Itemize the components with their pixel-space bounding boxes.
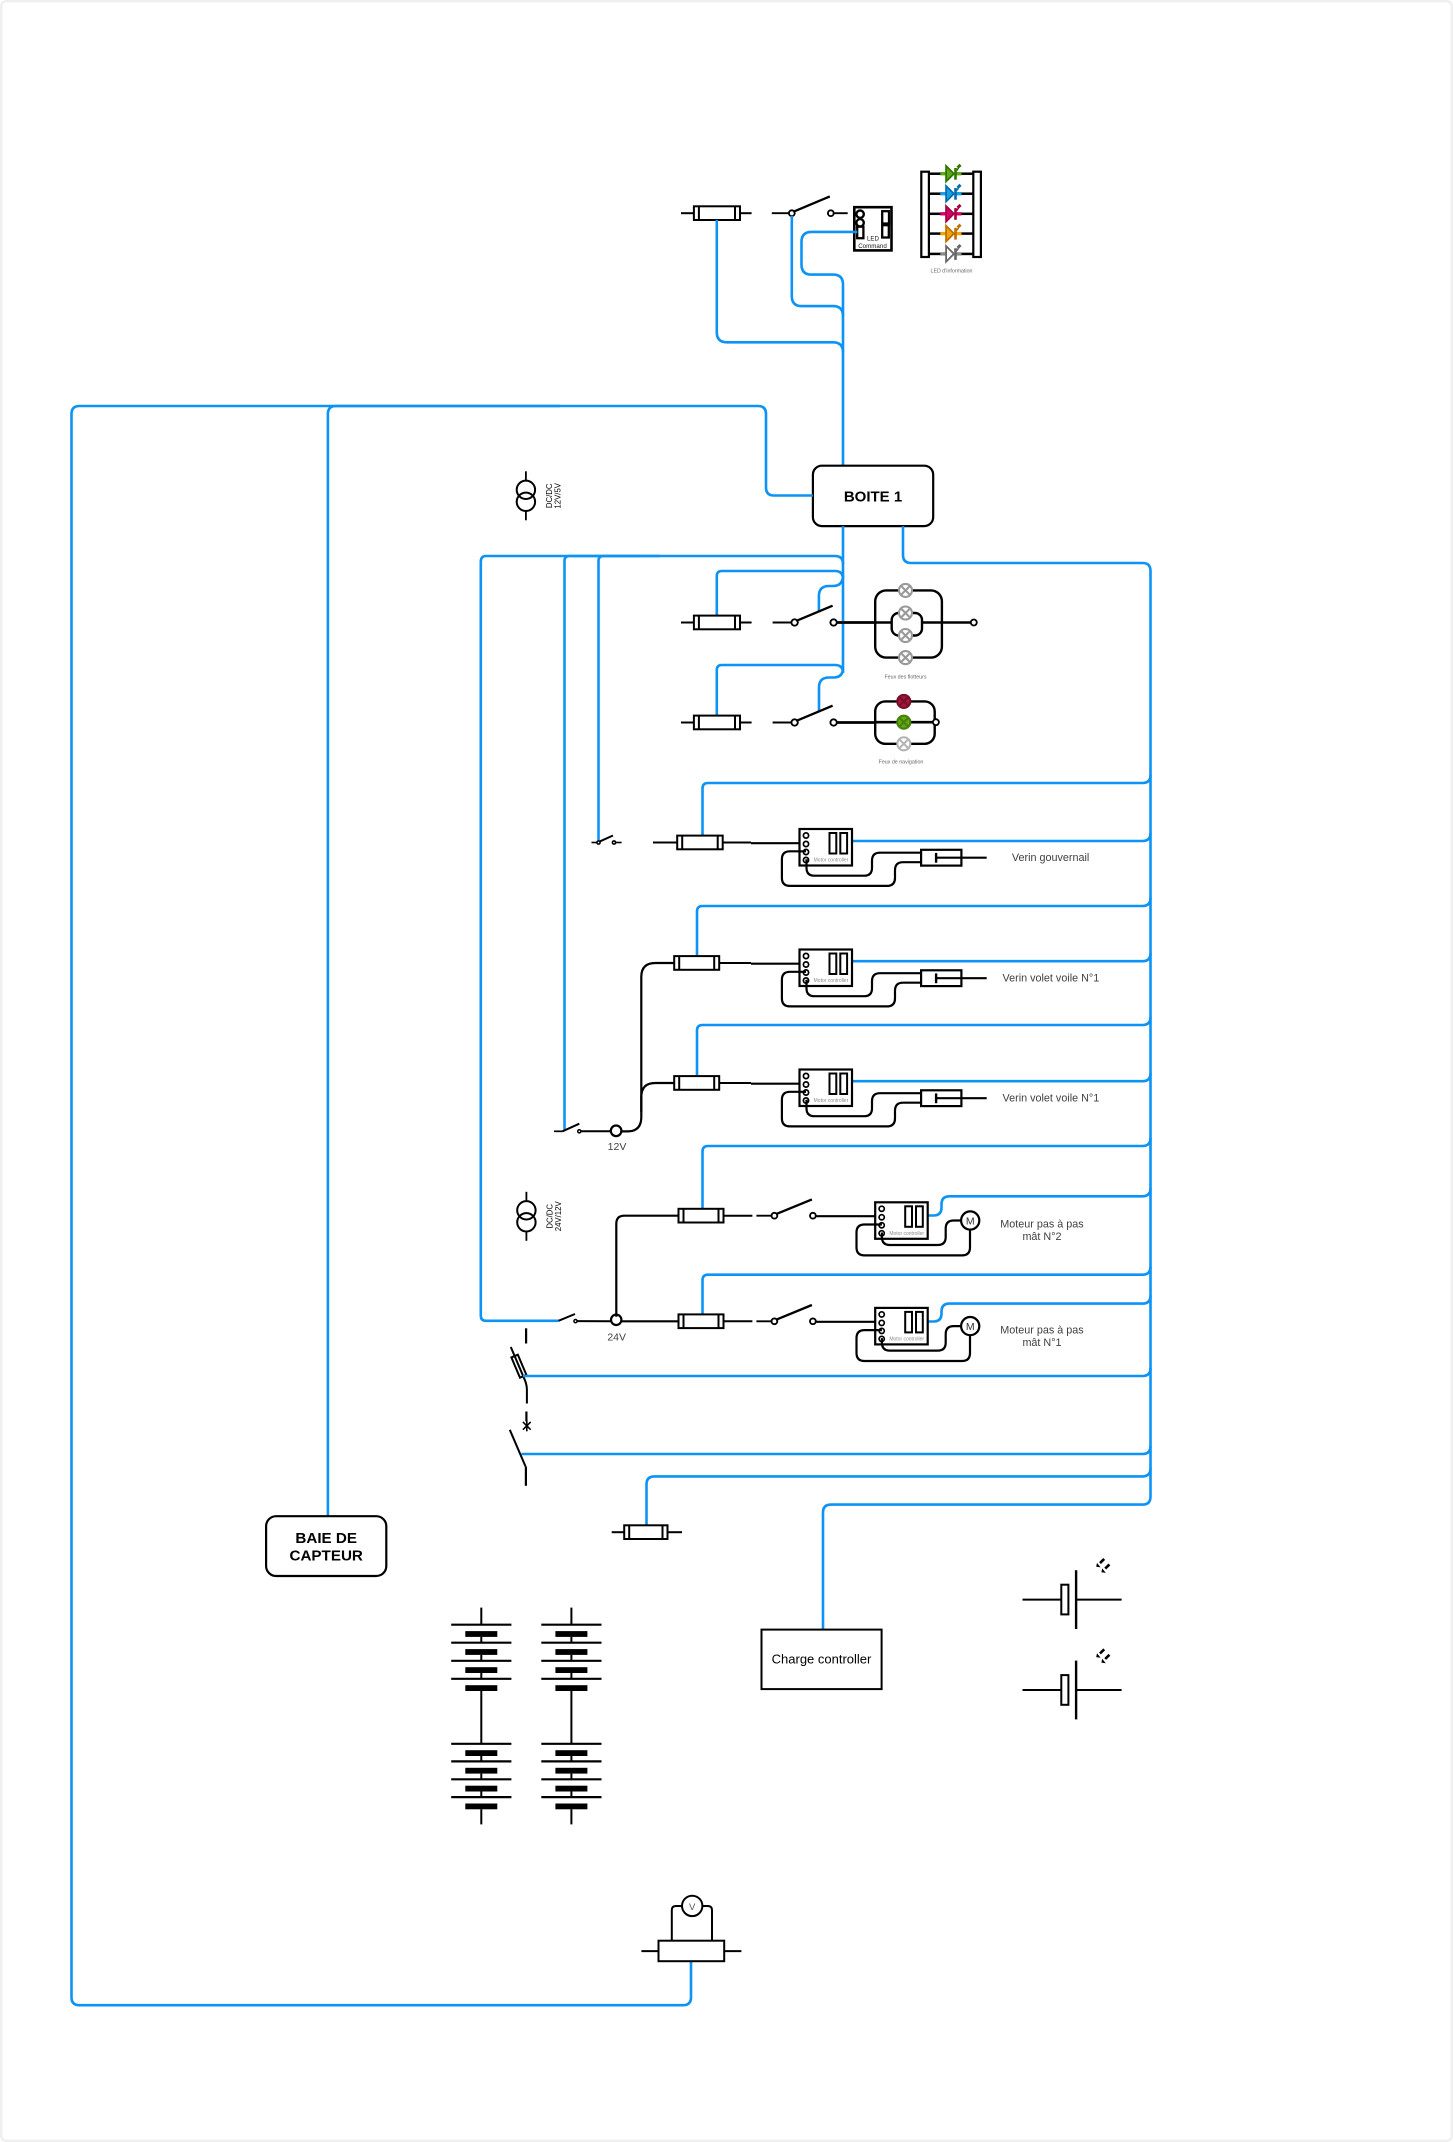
fuse F1 [694, 206, 740, 220]
lamp L5 red [897, 695, 910, 708]
wire 12V feed to F5 [621, 963, 674, 1131]
wire three-branch header [481, 556, 843, 1321]
svg-text:LED d'information: LED d'information [931, 269, 973, 275]
switch S2 [773, 606, 837, 626]
svg-text:LED: LED [867, 236, 880, 243]
fuse F8 [679, 1314, 724, 1328]
wire F4 to controller U3a [751, 842, 803, 844]
voltmeter V1 [672, 1896, 712, 1941]
motor controller U3a [800, 829, 853, 866]
wire 24V node to fuse F8 [621, 1320, 679, 1322]
svg-text:Verin volet voile N°1: Verin volet voile N°1 [1003, 973, 1100, 985]
battery bank B1 [451, 1608, 511, 1825]
linear actuator A1 [921, 850, 987, 866]
linear actuator A3 [921, 1090, 987, 1106]
wire stub above breaker FB1 [525, 1328, 527, 1343]
switch S5 (12V) [554, 1130, 563, 1132]
DC/DC converter U5 24V/12V [517, 1192, 563, 1241]
LED D1 green [940, 165, 961, 182]
wire stub below switch S9 [525, 1466, 527, 1485]
wire rung for LED D4 amber [929, 232, 941, 235]
loop wires U3a to actuator [782, 851, 921, 886]
wire fuse F1 to main vertical [717, 220, 843, 352]
linear actuator A2 [921, 970, 987, 986]
loop wires U3b to actuator [782, 972, 921, 1007]
svg-text:Command: Command [858, 243, 887, 250]
breaker fuse FB1 (tilted) [511, 1347, 527, 1404]
wire controller U4b output to bus [924, 1296, 1151, 1322]
lamp L1 [899, 584, 912, 597]
wire rung for LED D5 gray [929, 253, 941, 256]
motor controller U3c [800, 1070, 853, 1107]
DC/DC converter U2 12V/5V [517, 471, 563, 520]
wire branch to gouvernail switch [599, 556, 661, 840]
lamp bank inner loop [892, 613, 922, 636]
svg-text:Feux de navigation: Feux de navigation [879, 760, 924, 766]
lamp L7 gray [897, 737, 910, 750]
svg-text:Verin gouvernail: Verin gouvernail [1012, 852, 1089, 864]
wire S6 to controller U4a [816, 1215, 880, 1217]
wire rung for LED D2 blue [929, 192, 941, 195]
LED array left rail [921, 172, 929, 257]
wire 12V feed branch to F6 [641, 1083, 674, 1112]
LED D2 blue [940, 185, 961, 202]
solar cell PV1 [1023, 1559, 1122, 1629]
loop wires U4a to motor M1 [857, 1221, 971, 1256]
motor controller U4b [875, 1308, 928, 1345]
switch S9 blade [510, 1430, 526, 1467]
svg-text:Charge controller: Charge controller [772, 1652, 872, 1667]
motor M1 [961, 1211, 979, 1229]
svg-text:Motor controller: Motor controller [814, 1098, 849, 1104]
svg-text:12V: 12V [608, 1141, 627, 1153]
lamp L2 [899, 607, 912, 620]
wire switch S1 to main vertical [792, 216, 843, 316]
wire bus feeder to fuse F4 [703, 775, 1151, 835]
wire shunt to BOITE 1 left (left bus) [72, 406, 813, 2005]
wire controller U3b output to bus [848, 953, 1151, 961]
lamp L6 green [897, 716, 910, 729]
svg-text:Motor controller: Motor controller [814, 978, 849, 984]
node 24V [611, 1315, 621, 1325]
open terminal node A [971, 620, 977, 626]
wire switch S9 to bus [522, 1446, 1151, 1454]
fuse F6 [674, 1076, 719, 1090]
junction box BOITE 1 [813, 466, 933, 526]
wire F6 to controller U3c [751, 1083, 803, 1085]
svg-text:mât N°1: mât N°1 [1022, 1337, 1061, 1349]
switch S1 [772, 196, 848, 216]
lamp L3 [899, 629, 912, 642]
svg-text:BOITE 1: BOITE 1 [844, 489, 902, 506]
switch S6 [756, 1199, 815, 1218]
wire out of inner loop [922, 621, 942, 624]
wire bus feeder to fuse F5 [697, 898, 1151, 956]
node 12V [611, 1126, 622, 1137]
wire S2 to lamp bank [836, 621, 875, 624]
svg-text:Motor controller: Motor controller [889, 1337, 924, 1343]
wire to switch S2 blade [819, 575, 843, 612]
lamp bank outer loop (Feux des flotteurs) [875, 590, 942, 657]
solar cell PV2 [1023, 1649, 1122, 1719]
wire feed to fuse F3 [717, 665, 843, 715]
svg-text:M: M [966, 1321, 975, 1333]
wire stub above star node [525, 1412, 527, 1422]
svg-text:Feux des flotteurs: Feux des flotteurs [884, 675, 926, 681]
LED D4 amber [940, 225, 961, 242]
svg-text:Moteur pas à pas: Moteur pas à pas [1000, 1325, 1084, 1337]
svg-text:12V/5V: 12V/5V [553, 482, 562, 508]
open terminal node B [933, 719, 939, 725]
wire bus feeder to fuse F6 [697, 1017, 1151, 1076]
wire rung for LED D3 magenta [929, 213, 941, 216]
wire controller U3a output to bus [848, 833, 1151, 841]
wire bus feeder to fuse F8 [703, 1267, 1151, 1315]
svg-text:Moteur pas à pas: Moteur pas à pas [1000, 1219, 1084, 1231]
svg-text:CAPTEUR: CAPTEUR [289, 1548, 362, 1565]
wire F5 to controller U3b [751, 963, 803, 965]
switch S4 [592, 836, 622, 845]
wire into inner loop [875, 621, 892, 624]
wire controller U4a output to bus [924, 1188, 1151, 1215]
svg-text:Motor controller: Motor controller [814, 858, 849, 864]
switch S8 (24V) [559, 1314, 576, 1321]
fuse F4 [677, 836, 723, 850]
battery bank B2 [541, 1608, 601, 1825]
wire feed to fuse F2 [717, 571, 843, 615]
switch S3 [773, 706, 837, 726]
LED D5 gray [940, 245, 961, 262]
motor controller U4a [875, 1202, 928, 1239]
wire main distribution vertical from BOITE 1 [842, 526, 845, 672]
wire through lamp bank [875, 721, 935, 724]
fuse F3 [694, 716, 740, 730]
lamp L4 [899, 651, 912, 664]
wire 24V node to fuse F7 [616, 1216, 678, 1317]
wire rung for LED D1 green [929, 172, 941, 175]
svg-text:Motor controller: Motor controller [889, 1231, 924, 1237]
fuse F7 [679, 1209, 724, 1223]
lamp bank loop (Feux de navigation) [875, 701, 935, 743]
wire S3 to lamp bank [836, 721, 875, 724]
wire U1 to BOITE 1 (main vertical) [802, 232, 858, 466]
LED array right rail [973, 172, 981, 257]
wire branch to 12V switch [565, 556, 641, 1130]
LED driver module U1 (LED Command) [854, 207, 891, 250]
motor M2 [961, 1317, 979, 1335]
svg-text:BAIE DE: BAIE DE [295, 1530, 357, 1547]
wire bus to fuse F9 [647, 1468, 1151, 1525]
LED D3 magenta [940, 205, 961, 222]
svg-text:V: V [689, 1902, 696, 1913]
wire bus feeder to fuse F7 [703, 1138, 1151, 1209]
svg-text:M: M [966, 1215, 975, 1227]
svg-text:Verin volet voile N°1: Verin volet voile N°1 [1003, 1093, 1100, 1105]
svg-text:24V/12V: 24V/12V [554, 1201, 563, 1232]
wire BOITE 1 right output to bus and charge controller [823, 526, 1151, 1630]
fuse F2 [694, 616, 740, 630]
svg-text:24V: 24V [607, 1332, 626, 1344]
box Charge controller [762, 1630, 882, 1690]
box BAIE DE CAPTEUR [266, 1516, 386, 1576]
wire BAIE DE CAPTEUR to top rail [328, 406, 560, 1516]
wire lamp bank to terminal [942, 621, 971, 624]
star junction marker [523, 1420, 531, 1431]
wire breaker FB1 to bus [523, 1368, 1151, 1376]
loop wires U4b to motor M2 [857, 1326, 971, 1361]
fuse F9 [624, 1525, 667, 1539]
fuse F5 [674, 956, 719, 970]
switch S7 [756, 1305, 815, 1324]
wire controller U3c output to bus [848, 1073, 1151, 1081]
shunt resistor R1 [641, 1941, 741, 1962]
wire to switch S3 blade [819, 668, 843, 712]
motor controller U3b [800, 950, 853, 987]
loop wires U3c to actuator [782, 1092, 921, 1127]
svg-text:mât N°2: mât N°2 [1022, 1231, 1061, 1243]
wire S7 to controller U4b [816, 1321, 880, 1323]
